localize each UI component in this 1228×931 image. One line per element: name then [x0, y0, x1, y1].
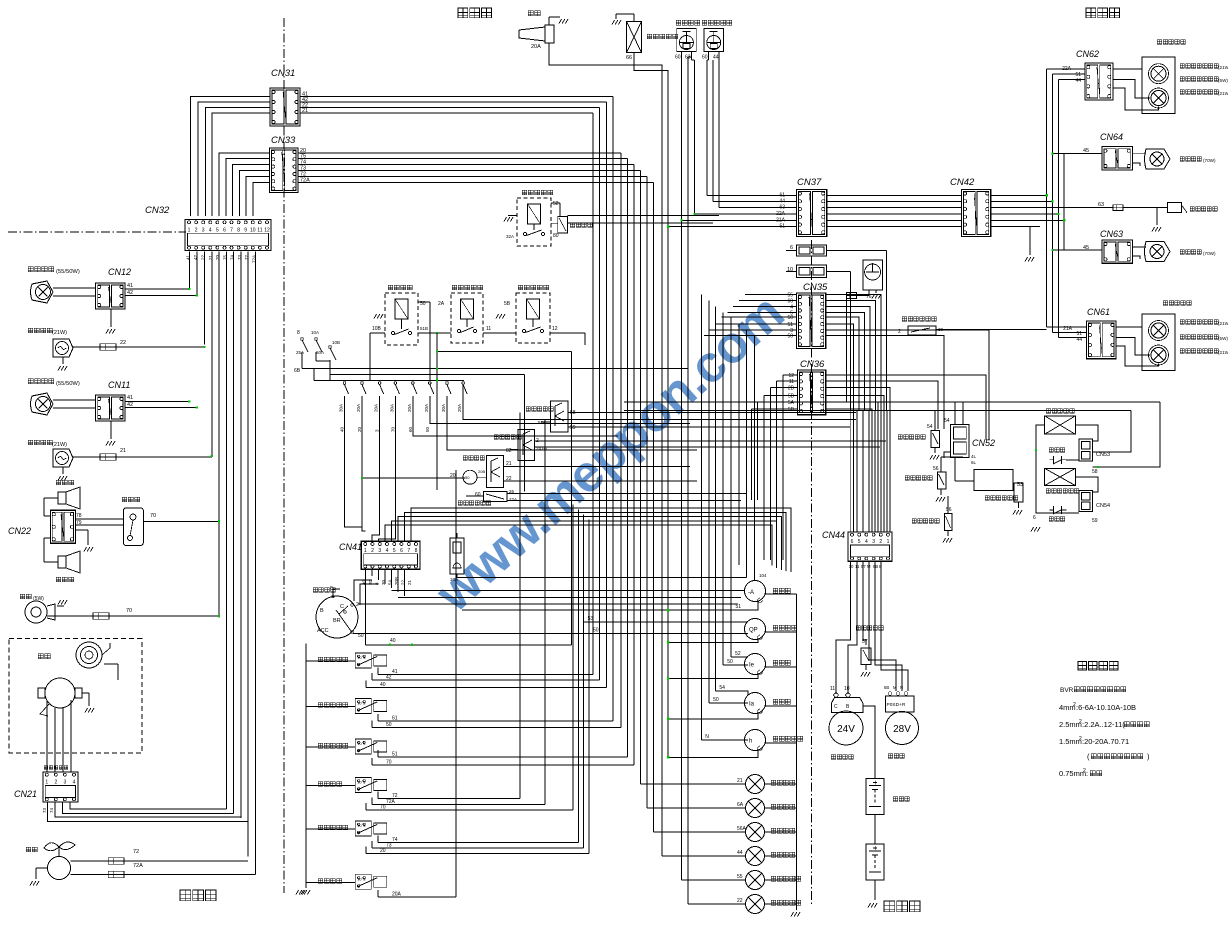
- svg-text:CN64: CN64: [1100, 132, 1123, 142]
- svg-text:60: 60: [702, 55, 708, 61]
- svg-text:(55/50W): (55/50W): [56, 269, 80, 275]
- svg-text:10: 10: [250, 227, 256, 233]
- svg-text:56A: 56A: [737, 826, 747, 832]
- svg-text:6A: 6A: [737, 802, 744, 808]
- svg-text:11: 11: [486, 326, 491, 332]
- svg-text:22: 22: [401, 579, 406, 585]
- svg-text:2: 2: [356, 602, 359, 608]
- svg-text:N: N: [900, 685, 903, 690]
- svg-text:(5W): (5W): [1218, 78, 1228, 83]
- svg-text:72A: 72A: [133, 863, 143, 869]
- svg-text:22: 22: [737, 898, 743, 904]
- svg-text:40: 40: [390, 638, 396, 644]
- svg-text:Ia: Ia: [749, 702, 755, 708]
- svg-text:CN42: CN42: [950, 177, 975, 188]
- svg-text:CN63: CN63: [1100, 229, 1123, 239]
- svg-text:20B: 20B: [478, 469, 485, 474]
- svg-text:20A: 20A: [356, 404, 361, 412]
- svg-text:CN32: CN32: [145, 205, 170, 216]
- svg-text:M: M: [893, 685, 897, 690]
- svg-text:h: h: [749, 739, 752, 745]
- svg-text:CN54: CN54: [1096, 503, 1110, 509]
- svg-text:4: 4: [357, 750, 359, 754]
- svg-text::6-6A-10.10A-10B: :6-6A-10.10A-10B: [1076, 703, 1136, 712]
- svg-text:4L: 4L: [971, 454, 977, 459]
- svg-text:41: 41: [127, 283, 133, 289]
- svg-text:78: 78: [76, 513, 82, 519]
- svg-text:50: 50: [593, 627, 599, 633]
- svg-text:32A: 32A: [506, 234, 514, 239]
- svg-text:50: 50: [425, 426, 430, 432]
- svg-text:20A: 20A: [374, 404, 379, 412]
- svg-text:BVR: BVR: [1060, 687, 1074, 694]
- svg-text:70: 70: [150, 513, 156, 519]
- svg-text:66: 66: [626, 55, 632, 61]
- svg-text:50: 50: [787, 334, 793, 340]
- svg-text:2A: 2A: [438, 301, 445, 307]
- svg-text:4: 4: [357, 788, 359, 792]
- svg-text:58: 58: [1092, 469, 1098, 475]
- svg-text:QP: QP: [749, 628, 758, 634]
- svg-text:30A: 30A: [339, 404, 344, 412]
- svg-text:20: 20: [357, 426, 362, 432]
- svg-text:(21W): (21W): [1218, 91, 1228, 96]
- svg-text:9: 9: [244, 227, 247, 233]
- svg-text:2: 2: [195, 227, 198, 233]
- svg-text:N: N: [705, 734, 709, 740]
- svg-text:3: 3: [202, 227, 205, 233]
- svg-text:20: 20: [450, 473, 456, 479]
- svg-text:CN61: CN61: [1087, 307, 1110, 317]
- svg-text:50: 50: [727, 659, 733, 665]
- svg-text:6: 6: [1033, 515, 1036, 521]
- svg-text:P0SD+R: P0SD+R: [887, 702, 906, 708]
- svg-text:(21W): (21W): [52, 330, 67, 336]
- svg-text:10: 10: [849, 564, 854, 569]
- svg-text:5B: 5B: [788, 393, 795, 399]
- svg-text:6L: 6L: [971, 460, 977, 465]
- svg-text:(21W): (21W): [1218, 350, 1228, 355]
- svg-text:40: 40: [340, 426, 345, 432]
- svg-text:10B: 10B: [332, 340, 340, 345]
- svg-text:56: 56: [933, 466, 939, 472]
- svg-text:30: 30: [381, 579, 386, 585]
- svg-text:44: 44: [737, 850, 743, 856]
- svg-text:70: 70: [126, 608, 132, 614]
- svg-text:CN53: CN53: [1096, 452, 1110, 458]
- svg-text:104: 104: [759, 573, 767, 578]
- svg-text::2.2A..12-11(: :2.2A..12-11(: [1082, 720, 1125, 729]
- svg-text:CN41: CN41: [339, 542, 362, 552]
- svg-text:59: 59: [570, 425, 576, 431]
- svg-text:11: 11: [789, 379, 794, 385]
- svg-text::20-20A.70.71: :20-20A.70.71: [1082, 737, 1129, 746]
- svg-text:53: 53: [588, 616, 594, 622]
- svg-text:52: 52: [735, 651, 741, 657]
- svg-text:(21W): (21W): [52, 442, 67, 448]
- svg-text:10B: 10B: [372, 326, 382, 332]
- svg-text:20A: 20A: [424, 404, 429, 412]
- svg-text:50: 50: [358, 633, 364, 639]
- svg-text:2: 2: [55, 779, 58, 785]
- svg-text:CN33: CN33: [271, 135, 296, 146]
- svg-text:(5W): (5W): [1218, 336, 1228, 341]
- svg-text:56: 56: [946, 507, 952, 513]
- svg-text:50: 50: [713, 697, 719, 703]
- svg-text:3: 3: [64, 779, 67, 785]
- svg-text:55: 55: [737, 874, 743, 880]
- svg-text:(21W): (21W): [1218, 321, 1228, 326]
- svg-text:5: 5: [858, 539, 861, 545]
- svg-text:CN31: CN31: [271, 68, 295, 79]
- svg-text:44: 44: [713, 55, 719, 61]
- svg-text:60: 60: [675, 55, 681, 61]
- svg-text:4: 4: [386, 548, 389, 554]
- svg-text:(70W): (70W): [1203, 158, 1216, 163]
- svg-text:4: 4: [357, 663, 359, 667]
- svg-text:4: 4: [357, 831, 359, 835]
- svg-text:20A: 20A: [531, 44, 541, 50]
- svg-text:5: 5: [393, 548, 396, 554]
- svg-text:21: 21: [407, 579, 412, 585]
- svg-text:5B: 5B: [504, 301, 511, 307]
- svg-text:10: 10: [357, 780, 361, 784]
- svg-text:3: 3: [363, 656, 365, 660]
- svg-text:6B: 6B: [873, 564, 878, 569]
- svg-text:6B: 6B: [294, 368, 301, 374]
- svg-text:CN37: CN37: [797, 177, 822, 188]
- svg-text:2: 2: [898, 329, 901, 335]
- svg-text:11: 11: [257, 227, 262, 233]
- svg-text:3: 3: [363, 877, 365, 881]
- svg-text:C: C: [834, 704, 838, 710]
- svg-text:3: 3: [363, 701, 365, 705]
- svg-text:20: 20: [368, 579, 373, 585]
- svg-text:25A: 25A: [296, 350, 304, 355]
- svg-text:6: 6: [851, 539, 854, 545]
- svg-text:(55/50W): (55/50W): [56, 381, 80, 387]
- svg-text:CN52: CN52: [972, 438, 995, 448]
- svg-text:3: 3: [378, 548, 381, 554]
- svg-text:10: 10: [357, 824, 361, 828]
- svg-text:1: 1: [45, 779, 48, 785]
- svg-text:5A: 5A: [788, 400, 795, 406]
- svg-text:30A: 30A: [389, 404, 394, 412]
- svg-text:72: 72: [133, 849, 139, 855]
- svg-text:4: 4: [865, 539, 868, 545]
- svg-text::: :: [1086, 769, 1088, 778]
- svg-text:CN35: CN35: [803, 282, 828, 293]
- svg-text:2B: 2B: [788, 386, 795, 392]
- svg-text:8: 8: [297, 330, 300, 336]
- svg-text:7: 7: [407, 548, 410, 554]
- svg-text:60A: 60A: [316, 350, 324, 355]
- svg-text:3: 3: [363, 780, 365, 784]
- svg-text:CN62: CN62: [1076, 49, 1099, 59]
- svg-text:10: 10: [357, 742, 361, 746]
- svg-text:22A: 22A: [509, 497, 517, 502]
- svg-text:70: 70: [390, 426, 395, 432]
- svg-text:(70W): (70W): [1203, 251, 1216, 256]
- svg-text:CN36: CN36: [800, 359, 825, 370]
- svg-text:CN12: CN12: [108, 267, 131, 277]
- svg-text:Ie: Ie: [749, 663, 755, 669]
- svg-text:CN11: CN11: [108, 380, 130, 390]
- svg-text:21: 21: [737, 778, 743, 784]
- svg-text:45: 45: [1083, 148, 1089, 154]
- svg-text:BR: BR: [333, 618, 341, 624]
- svg-text:3: 3: [872, 539, 875, 545]
- svg-text:52: 52: [553, 201, 559, 207]
- svg-text:B: B: [320, 608, 324, 614]
- svg-text:21: 21: [120, 448, 126, 454]
- svg-text:28V: 28V: [893, 724, 911, 735]
- svg-text:57: 57: [861, 564, 866, 569]
- svg-text:59: 59: [1092, 518, 1098, 524]
- svg-text:6: 6: [400, 548, 403, 554]
- svg-text:CN21: CN21: [14, 789, 37, 799]
- svg-text:(21W): (21W): [1218, 65, 1228, 70]
- svg-text:2: 2: [371, 548, 374, 554]
- svg-text:3: 3: [363, 824, 365, 828]
- svg-text:20B: 20B: [394, 577, 399, 585]
- svg-text:74: 74: [49, 807, 54, 813]
- svg-text:4: 4: [209, 227, 212, 233]
- svg-text:CN44: CN44: [822, 530, 845, 540]
- svg-text:1: 1: [364, 548, 367, 554]
- svg-text:5: 5: [216, 227, 219, 233]
- svg-text:50: 50: [465, 475, 470, 480]
- svg-text:54: 54: [719, 685, 725, 691]
- svg-text:54: 54: [944, 418, 950, 424]
- svg-text:8: 8: [415, 548, 418, 554]
- svg-text:5A: 5A: [388, 579, 393, 585]
- svg-text:80: 80: [553, 233, 559, 239]
- svg-text:10: 10: [357, 877, 361, 881]
- svg-text:10: 10: [787, 267, 793, 273]
- svg-text:10: 10: [357, 701, 361, 705]
- svg-text:3: 3: [363, 742, 365, 746]
- svg-text:57: 57: [862, 639, 868, 645]
- svg-text:24V: 24V: [837, 724, 855, 735]
- svg-text:12: 12: [552, 326, 558, 332]
- svg-text:63: 63: [1098, 202, 1104, 208]
- svg-text:51: 51: [735, 604, 741, 610]
- svg-text:41: 41: [127, 395, 133, 401]
- svg-text:C: C: [340, 604, 344, 610]
- svg-text:58: 58: [570, 410, 576, 416]
- svg-text:8: 8: [237, 227, 240, 233]
- svg-text:10A: 10A: [311, 330, 319, 335]
- svg-text:12: 12: [264, 227, 270, 233]
- svg-text:22: 22: [120, 340, 126, 346]
- svg-text:6: 6: [223, 227, 226, 233]
- svg-text:1: 1: [887, 539, 890, 545]
- svg-text:-A: -A: [748, 590, 754, 596]
- svg-text:60: 60: [475, 492, 481, 498]
- svg-text:20A: 20A: [457, 404, 462, 412]
- svg-text:4: 4: [357, 885, 359, 889]
- svg-text:1: 1: [188, 227, 191, 233]
- svg-text:10: 10: [357, 656, 361, 660]
- svg-text:51B: 51B: [420, 326, 428, 331]
- svg-text:7: 7: [230, 227, 233, 233]
- svg-text:54: 54: [927, 424, 933, 430]
- svg-text:20A: 20A: [407, 404, 412, 412]
- svg-text:40: 40: [362, 579, 367, 585]
- svg-text:11: 11: [855, 564, 860, 569]
- svg-text:4: 4: [73, 779, 76, 785]
- svg-text:CN22: CN22: [8, 526, 31, 536]
- svg-text:4: 4: [357, 709, 359, 713]
- svg-text:73: 73: [42, 807, 47, 813]
- svg-text:2: 2: [879, 539, 882, 545]
- svg-text:ACC: ACC: [317, 628, 329, 634]
- svg-text:6B: 6B: [884, 685, 889, 690]
- svg-text:11: 11: [830, 686, 835, 692]
- svg-text:8: 8: [330, 586, 333, 592]
- svg-text:30A: 30A: [441, 404, 446, 412]
- svg-text:10: 10: [844, 686, 850, 692]
- svg-text:60: 60: [408, 426, 413, 432]
- svg-text:50: 50: [787, 315, 793, 321]
